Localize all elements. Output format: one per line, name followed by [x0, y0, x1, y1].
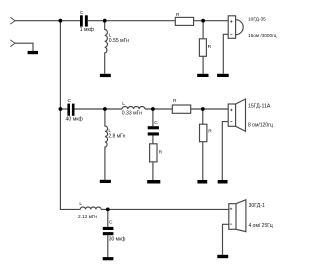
wire R3 to speaker SP2	[191, 108, 229, 110]
ground C4	[103, 257, 114, 260]
speaker SP2 body	[228, 104, 235, 126]
node mid-R4 junction	[201, 107, 205, 111]
node mid-A junction	[59, 107, 63, 111]
wire SP3 return	[223, 224, 229, 255]
ground SP1	[217, 74, 229, 77]
resistor R5 (zobel)	[150, 144, 157, 162]
speaker SP1 dome	[236, 20, 244, 35]
ground SP2	[218, 180, 228, 184]
speaker SP2 polarity +	[230, 109, 232, 111]
ground zobel	[147, 180, 160, 184]
node A junction	[59, 19, 63, 23]
svg-text:R: R	[173, 98, 177, 104]
svg-text:8 ом/120гц: 8 ом/120гц	[248, 123, 273, 129]
wire C1 right to R1	[88, 20, 176, 22]
capacitor C3 plates (zobel)	[148, 126, 159, 129]
inductor L4 2.8 mH (shunt, mid)	[105, 109, 108, 180]
speaker SP1 polarity +	[230, 20, 232, 22]
ground SP3	[217, 255, 228, 258]
speaker SP3 polarity +	[230, 208, 232, 210]
svg-text:C: C	[80, 10, 84, 16]
svg-text:0.55 мГн: 0.55 мГн	[109, 38, 129, 44]
ground L4	[100, 180, 111, 183]
wire R4 branch	[202, 109, 204, 180]
svg-text:2.12 мГн: 2.12 мГн	[78, 214, 97, 220]
svg-text:L: L	[122, 101, 125, 107]
wire R2 branch	[202, 21, 204, 74]
inductor L2 0.33 mH (series, mid)	[122, 106, 145, 109]
svg-text:R: R	[208, 44, 212, 50]
wire SP1 return	[223, 34, 228, 74]
svg-text:R: R	[208, 128, 212, 134]
wire R1 to speaker SP1	[194, 20, 229, 22]
svg-text:L: L	[79, 201, 82, 207]
node bottom-C4 junction	[106, 208, 110, 212]
capacitor C4 plates	[103, 227, 114, 230]
resistor R4 (shunt, mid)	[200, 124, 207, 142]
svg-text:30ГД-1: 30ГД-1	[249, 203, 265, 209]
wire L2 to R3	[145, 108, 172, 110]
speaker SP3 polarity -	[230, 223, 232, 225]
node top-R2 junction	[201, 19, 205, 23]
speaker SP2 polarity -	[230, 121, 232, 123]
svg-text:C: C	[68, 98, 72, 104]
speaker SP1 polarity -	[230, 33, 232, 35]
svg-text:C: C	[109, 219, 113, 225]
input terminal 1 (signal)	[10, 17, 15, 24]
svg-text:2.8 мГн: 2.8 мГн	[108, 134, 125, 140]
ground L1	[100, 74, 111, 77]
node top-L1 junction	[103, 19, 107, 23]
node mid-zobel junction	[151, 107, 155, 111]
wire L3 to speaker SP3	[101, 208, 229, 210]
speaker SP3 body	[229, 204, 236, 230]
wire row2 node A to C2	[60, 108, 67, 110]
speaker SP2 cone	[236, 99, 246, 131]
wire SP2 return	[222, 122, 228, 180]
wire input2 to ground	[15, 43, 33, 51]
svg-text:16ом /3000гц: 16ом /3000гц	[248, 33, 277, 38]
node mid-L4 junction	[103, 107, 107, 111]
svg-text:R: R	[176, 12, 180, 18]
svg-text:30 мкф: 30 мкф	[109, 236, 126, 242]
capacitor C2 plates	[67, 104, 70, 116]
wire bus to bottom row	[60, 109, 80, 209]
svg-text:15ГД-11А: 15ГД-11А	[248, 103, 271, 109]
wire node A vertical bus down	[59, 21, 61, 109]
wire zobel branch	[152, 109, 154, 180]
svg-text:4 ом/ 25Гц: 4 ом/ 25Гц	[249, 223, 273, 229]
ground input2	[28, 51, 38, 54]
svg-text:C: C	[154, 120, 158, 126]
inductor L1 0.55 mH (shunt, top)	[105, 21, 108, 74]
input terminal 2 (common)	[10, 40, 15, 47]
ground R4	[197, 180, 207, 184]
wire C2 to L2	[75, 108, 123, 110]
inductor L3 2.12 mH (series, bottom)	[80, 207, 101, 209]
speaker SP3 cone	[236, 200, 246, 232]
svg-text:R: R	[159, 149, 163, 155]
capacitor C1 plates	[80, 15, 83, 26]
svg-text:0.33 мГн: 0.33 мГн	[122, 110, 142, 116]
svg-text:1 мкф: 1 мкф	[80, 27, 94, 33]
resistor R3 (series, mid)	[172, 105, 190, 113]
wire input1 to node A	[15, 20, 80, 22]
resistor R1 (series, top)	[175, 17, 193, 25]
svg-text:10ГД-35: 10ГД-35	[248, 17, 266, 23]
svg-text:40 мкф: 40 мкф	[66, 116, 84, 122]
ground R2	[197, 74, 208, 77]
wire C4 branch	[107, 209, 109, 257]
resistor R2 (shunt, top)	[199, 39, 206, 57]
speaker SP1 body	[228, 16, 235, 39]
